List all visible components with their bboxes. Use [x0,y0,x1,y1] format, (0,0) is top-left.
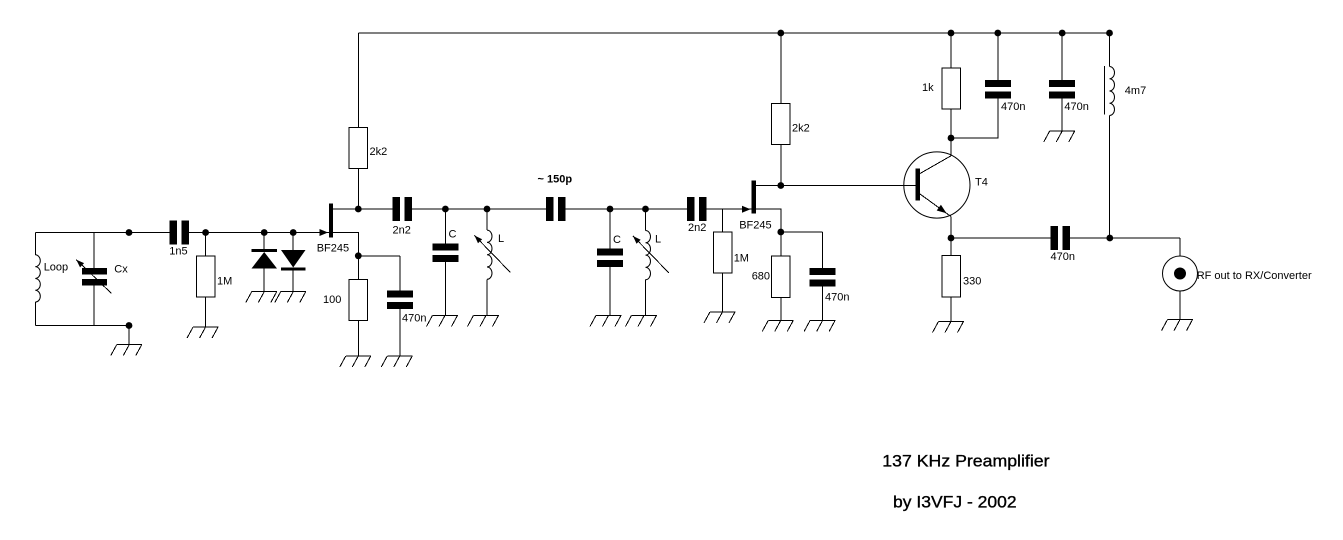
svg-text:2k2: 2k2 [370,146,388,158]
svg-text:L: L [498,233,504,245]
svg-text:L: L [655,234,661,246]
svg-text:1k: 1k [922,82,934,94]
svg-text:C: C [449,228,457,240]
svg-text:Loop: Loop [44,261,68,273]
svg-text:~ 150p: ~ 150p [538,174,573,186]
svg-text:4m7: 4m7 [1125,85,1146,97]
svg-text:2k2: 2k2 [792,123,810,135]
svg-text:1n5: 1n5 [169,245,187,257]
svg-text:137 KHz Preamplifier: 137 KHz Preamplifier [882,451,1050,470]
svg-text:470n: 470n [402,313,426,325]
svg-text:by I3VFJ - 2002: by I3VFJ - 2002 [893,493,1017,512]
svg-text:1M: 1M [217,276,232,288]
svg-text:T4: T4 [975,177,988,189]
svg-text:470n: 470n [825,292,849,304]
svg-text:BF245: BF245 [739,219,771,231]
svg-text:470n: 470n [1064,101,1088,113]
svg-text:470n: 470n [1001,101,1025,113]
svg-text:470n: 470n [1051,251,1075,263]
svg-text:RF out to RX/Converter: RF out to RX/Converter [1197,270,1312,282]
svg-text:680: 680 [752,270,770,282]
svg-text:2n2: 2n2 [688,222,706,234]
svg-text:100: 100 [323,294,341,306]
svg-text:1M: 1M [734,252,749,264]
svg-text:BF245: BF245 [317,243,349,255]
svg-text:Cx: Cx [114,264,128,276]
svg-text:2n2: 2n2 [393,225,411,237]
svg-text:330: 330 [963,276,981,288]
svg-text:C: C [613,234,621,246]
